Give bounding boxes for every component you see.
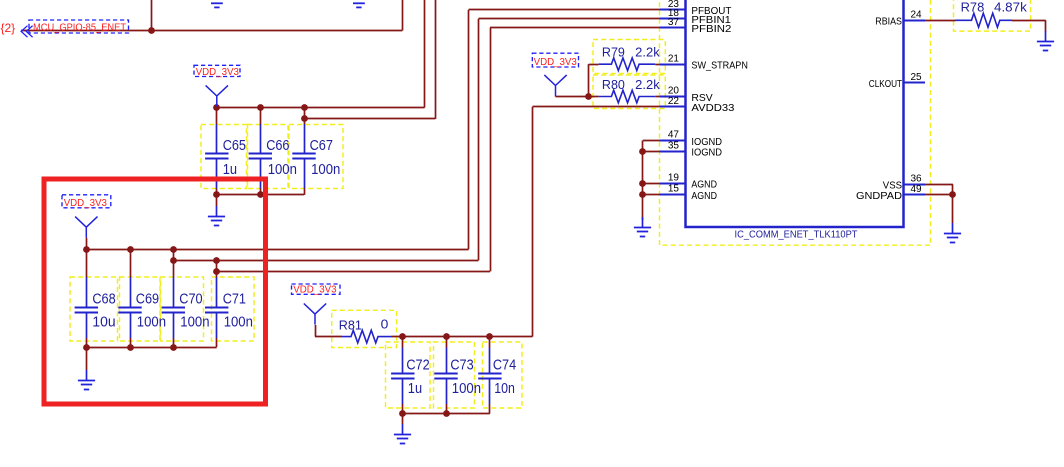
svg-text:VDD_3V3: VDD_3V3 [534,57,578,68]
svg-text:C70: C70 [179,290,202,307]
svg-text:CLKOUT: CLKOUT [869,79,902,90]
svg-text:24: 24 [911,10,923,21]
svg-text:37: 37 [668,17,680,28]
svg-text:PFBIN2: PFBIN2 [691,24,731,35]
svg-text:2.2k: 2.2k [635,78,660,92]
svg-text:IOGND: IOGND [691,148,722,159]
svg-text:100n: 100n [268,161,297,178]
svg-text:VSS: VSS [883,181,903,192]
svg-text:19: 19 [668,172,680,183]
svg-text:R81: R81 [339,318,362,333]
svg-text:C68: C68 [92,290,115,307]
svg-text:100n: 100n [137,314,166,331]
svg-text:IOGND: IOGND [691,137,722,148]
svg-text:100n: 100n [180,314,209,331]
svg-text:C66: C66 [266,137,289,154]
svg-text:100n: 100n [224,314,253,331]
svg-text:36: 36 [911,174,923,185]
svg-text:C71: C71 [223,290,246,307]
svg-text:25: 25 [911,72,923,83]
svg-text:RBIAS: RBIAS [875,17,902,28]
svg-text:VDD_3V3: VDD_3V3 [64,198,108,209]
svg-text:C73: C73 [450,357,473,374]
svg-text:C74: C74 [493,357,516,374]
svg-text:R79: R79 [602,45,625,59]
svg-text:C72: C72 [406,357,429,374]
svg-text:10u: 10u [92,314,115,331]
svg-text:MCU_GPIO-85_ENET: MCU_GPIO-85_ENET [33,22,126,33]
svg-text:VDD_3V3: VDD_3V3 [196,67,240,78]
svg-text:15: 15 [668,184,680,195]
svg-text:49: 49 [911,184,923,195]
svg-text:100n: 100n [452,380,481,397]
svg-text:22: 22 [668,96,680,107]
svg-text:47: 47 [668,130,680,141]
svg-text:10n: 10n [494,380,515,397]
svg-text:1u: 1u [408,380,422,397]
svg-text:C67: C67 [310,137,333,154]
svg-text:21: 21 [668,53,680,64]
svg-text:C65: C65 [223,137,246,154]
svg-text:AGND: AGND [691,191,717,202]
svg-text:SW_STRAPN: SW_STRAPN [691,61,748,72]
svg-text:1u: 1u [223,161,237,178]
svg-text:R78: R78 [961,1,985,15]
svg-text:2.2k: 2.2k [635,45,660,59]
svg-text:{2}: {2} [1,21,16,35]
svg-text:100n: 100n [311,161,340,178]
svg-text:35: 35 [668,141,680,152]
svg-text:GNDPAD: GNDPAD [856,191,902,202]
svg-text:VDD_3V3: VDD_3V3 [293,285,337,296]
svg-text:0: 0 [381,316,389,331]
svg-text:AGND: AGND [691,180,717,191]
svg-text:4.87k: 4.87k [994,1,1028,15]
svg-text:AVDD33: AVDD33 [691,103,734,114]
svg-text:C69: C69 [136,290,159,307]
svg-text:R80: R80 [602,78,625,92]
svg-text:IC_COMM_ENET_TLK110PT: IC_COMM_ENET_TLK110PT [735,229,858,240]
